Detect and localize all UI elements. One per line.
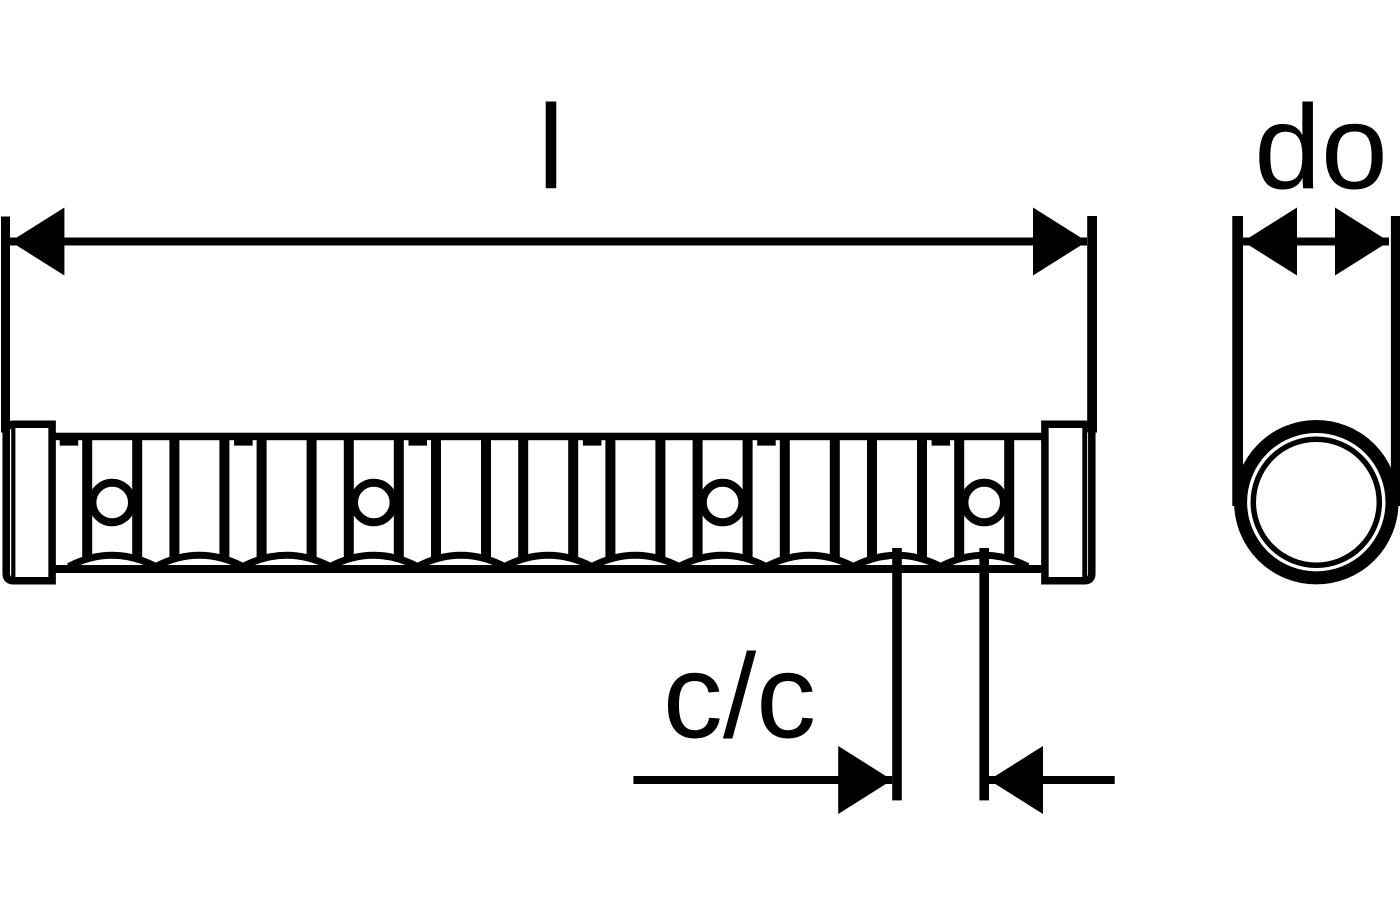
dimension c/c: right extension line	[979, 548, 989, 800]
left end cap inner edge line	[11, 426, 15, 579]
scallop arcs (corrugation curves)	[69, 555, 1028, 566]
tube end view inner circle	[1253, 439, 1379, 565]
end view: do right extension line	[1391, 216, 1400, 506]
dimension c/c: left-pointing arrowhead	[989, 746, 1043, 814]
rail body ribs (vertical bars)	[82, 436, 1014, 566]
left end cap	[6, 424, 52, 580]
fixing holes	[92, 483, 132, 523]
dimension l: left extension line	[1, 217, 10, 433]
dimension c/c: left line segment	[633, 776, 892, 784]
rib top tick marks (alternate grooves)	[60, 436, 950, 446]
dimension l: right extension line	[1087, 216, 1097, 433]
tube end view outer circle	[1241, 427, 1392, 578]
dimension do: left arrowhead	[1243, 208, 1297, 276]
right end cap	[1045, 424, 1092, 580]
dimension do: right arrowhead	[1335, 208, 1389, 276]
scallop white fills (corrugation underside)	[69, 555, 1028, 570]
svg-text:do: do	[1254, 81, 1387, 215]
end view: do left extension line	[1232, 216, 1243, 506]
svg-text:l: l	[538, 81, 565, 215]
dimension l: line	[10, 238, 1087, 246]
dimension c/c: right-pointing arrowhead	[838, 746, 892, 814]
rail bottom edge line	[52, 565, 1043, 573]
dimension c/c: right line segment	[989, 776, 1115, 784]
dimension l: right arrowhead	[1033, 208, 1087, 276]
dimension do: line	[1243, 238, 1389, 246]
svg-text:c/c: c/c	[663, 630, 816, 764]
dimension l: left arrowhead	[10, 208, 64, 276]
rail top edge line	[52, 433, 1043, 441]
right end cap inner edge line	[1082, 426, 1087, 579]
dimension c/c: left extension line	[892, 548, 902, 800]
